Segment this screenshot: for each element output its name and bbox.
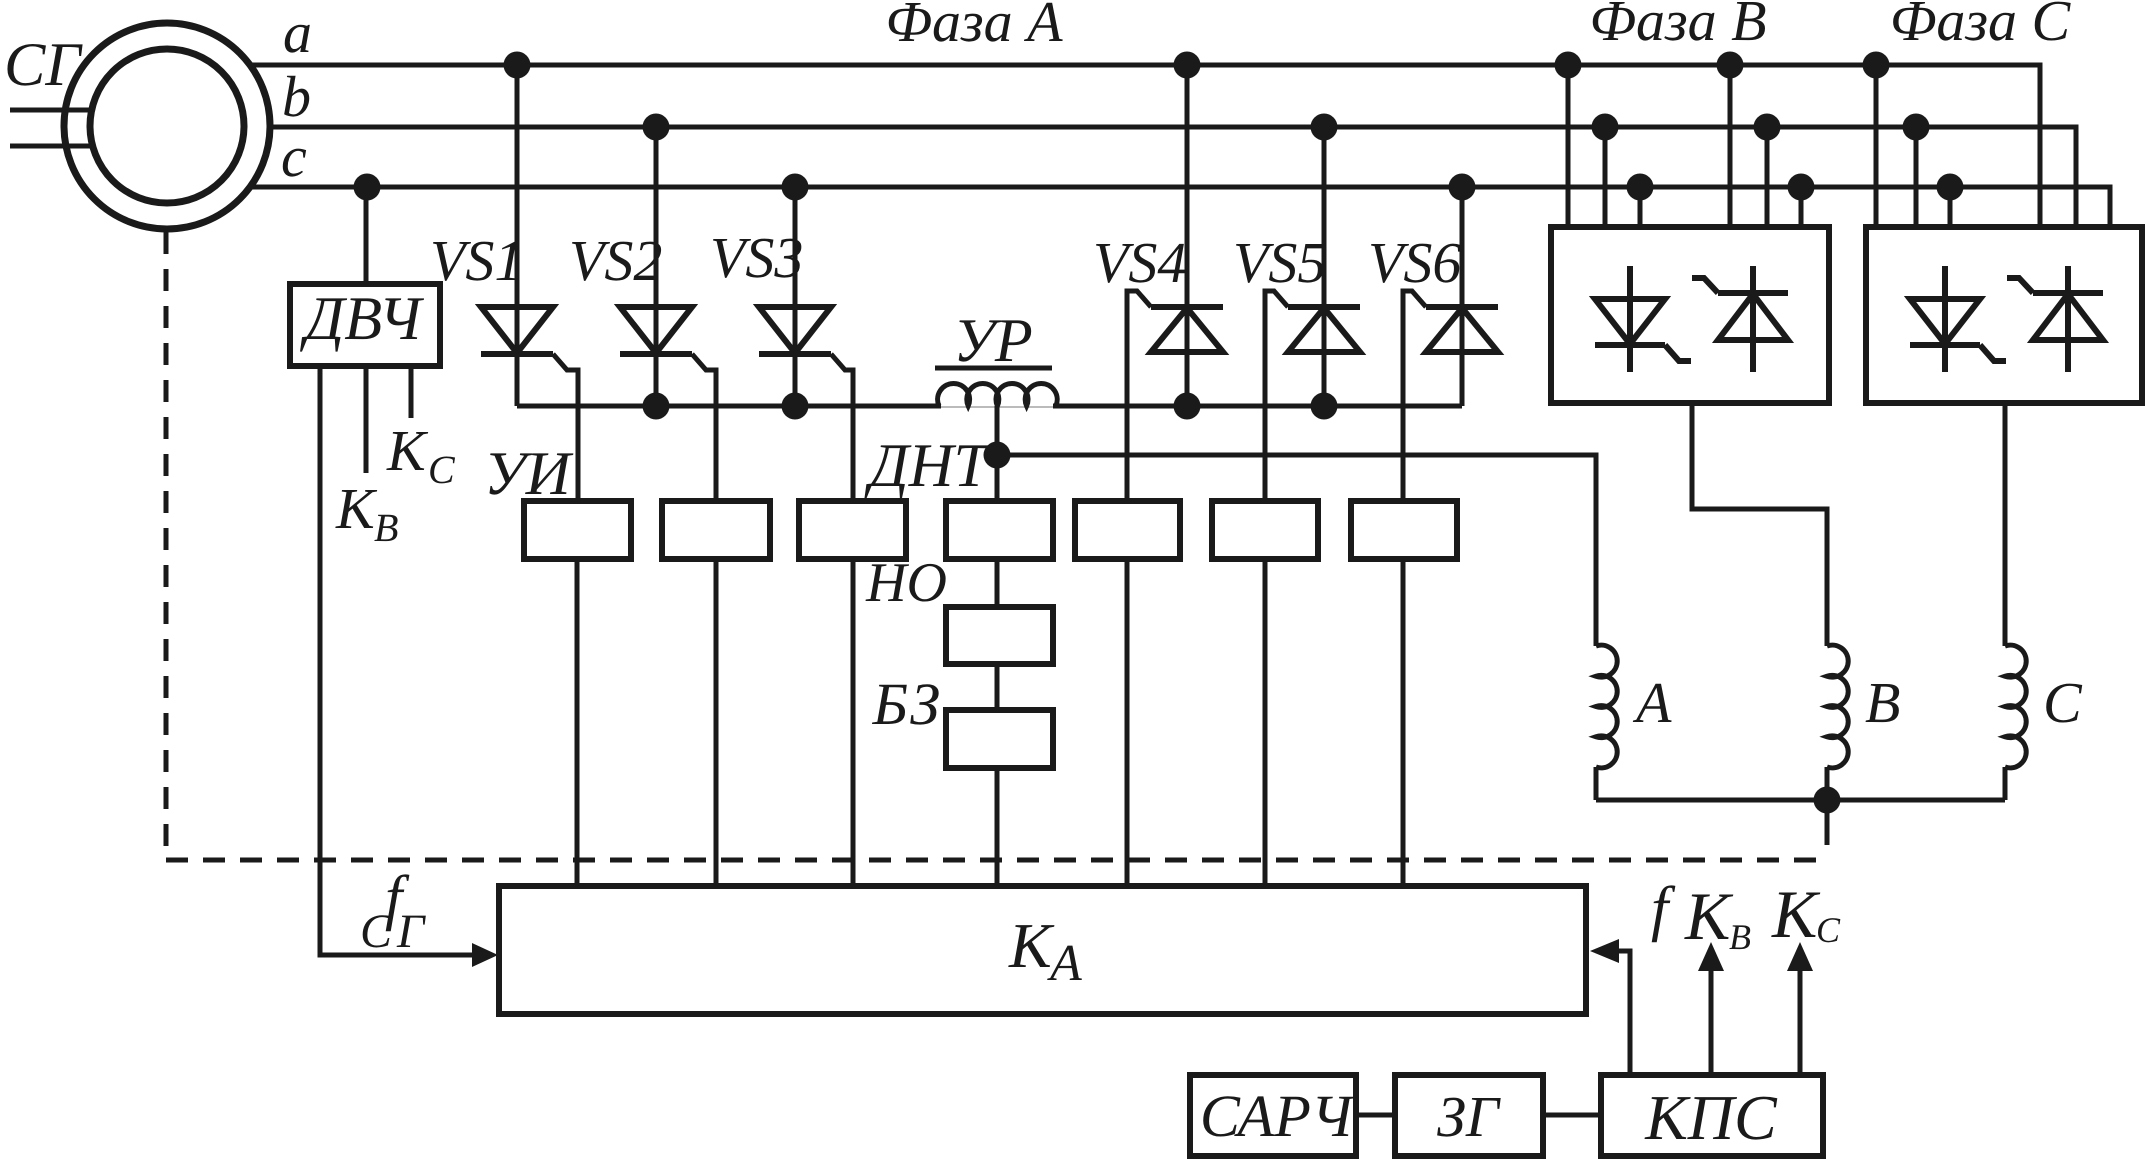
- wire УИ2 to КА: [714, 559, 719, 886]
- wire УИ4 to КА: [1125, 559, 1130, 886]
- thyristor VS5 cathode wire: [1322, 127, 1327, 406]
- node a-VS1: [504, 52, 531, 79]
- svg-text:К: К: [1684, 878, 1734, 954]
- svg-text:ЗГ: ЗГ: [1437, 1084, 1501, 1149]
- node c-VS3: [782, 174, 809, 201]
- thyristor M2 forward: [1942, 266, 1948, 372]
- svg-text:УИ: УИ: [484, 440, 574, 508]
- wire УИ5 to КА: [1263, 559, 1268, 886]
- dashed rotor line horizontal: [166, 858, 1826, 863]
- thyristor VS1 gate wire: [553, 354, 578, 501]
- label УР underline: [935, 366, 1052, 371]
- svg-text:VS4: VS4: [1093, 230, 1186, 295]
- block УИ1: [524, 501, 631, 559]
- wire M1 pin b right: [1765, 127, 1770, 227]
- thyristor VS2 gate wire: [692, 354, 716, 501]
- wire dc bus under reactor: [941, 406, 1053, 408]
- wire ДНТ to НО: [995, 559, 1000, 607]
- wire УИ3 to КА: [851, 559, 856, 886]
- svg-text:БЗ: БЗ: [872, 671, 940, 737]
- wire inductor B bottom: [1825, 767, 1830, 800]
- svg-text:VS1: VS1: [430, 228, 523, 293]
- svg-text:СГ: СГ: [360, 905, 429, 958]
- svg-text:VS3: VS3: [710, 225, 803, 290]
- thyristor VS6: [1426, 308, 1498, 352]
- svg-text:К: К: [386, 418, 429, 483]
- thyristor VS6 gate wire: [1403, 291, 1426, 501]
- node b-VS2: [643, 114, 670, 141]
- thyristor VS3 anode wire: [793, 187, 798, 406]
- wire phase c: [250, 187, 2110, 227]
- wire M2 pin a left: [1874, 65, 1879, 227]
- wire M1 pin b left: [1603, 127, 1608, 227]
- wire M1 pin a left: [1566, 65, 1571, 227]
- svg-text:VS6: VS6: [1368, 230, 1461, 295]
- wire ДВЧ input from phase c: [364, 187, 369, 284]
- svg-text:c: c: [281, 124, 307, 189]
- thyristor VS4: [1151, 308, 1223, 352]
- node neutral: [1814, 787, 1841, 814]
- svg-text:ДНТ: ДНТ: [864, 432, 992, 500]
- node b-VS5: [1311, 114, 1338, 141]
- node c-M1R: [1788, 174, 1815, 201]
- block ЗГ: [1395, 1075, 1543, 1156]
- wire M1 pin a right: [1728, 65, 1733, 227]
- wire УИ6 to КА: [1401, 559, 1406, 886]
- thyristor VS4 cathode wire: [1185, 65, 1190, 406]
- block КПС: [1601, 1075, 1823, 1156]
- svg-text:ДВЧ: ДВЧ: [300, 285, 425, 353]
- node b-M1L: [1592, 114, 1619, 141]
- module M2 box (Фаза С): [1866, 227, 2142, 403]
- svg-text:С: С: [1816, 910, 1841, 950]
- wire ДВЧ output fСГ to КА: [320, 366, 473, 955]
- svg-text:В: В: [1729, 917, 1751, 957]
- wire САРЧ to ЗГ: [1356, 1113, 1395, 1118]
- thyristor VS3: [759, 307, 831, 353]
- generator stator lead 1: [10, 108, 90, 113]
- thyristor VS6 cathode wire: [1460, 187, 1465, 406]
- wire УИ1 to КА: [575, 559, 580, 886]
- block УИ5: [1212, 501, 1318, 559]
- wire ДНТ to inductor A: [997, 455, 1596, 646]
- node ДНТ: [984, 442, 1011, 469]
- block УИ4: [1075, 501, 1180, 559]
- svg-text:VS5: VS5: [1233, 230, 1326, 295]
- thyristor VS2: [620, 307, 692, 353]
- svg-text:A: A: [1632, 670, 1672, 735]
- thyristor VS5 gate wire: [1265, 291, 1288, 501]
- node c-M1L: [1627, 174, 1654, 201]
- module M1 box (Фаза В): [1551, 227, 1829, 403]
- wire phase a: [250, 65, 2040, 227]
- wire ДВЧ output КС: [409, 366, 414, 418]
- wire f from КПС to КА: [1617, 951, 1630, 1074]
- node b-M2L: [1903, 114, 1930, 141]
- node c-M2L: [1937, 174, 1964, 201]
- node a-VS4: [1174, 52, 1201, 79]
- thyristor VS5: [1288, 308, 1360, 352]
- node c-VS6: [1449, 174, 1476, 201]
- wire НО to БЗ: [995, 664, 1000, 710]
- reactor УР: [938, 383, 1058, 406]
- generator СГ inner circle: [90, 49, 244, 203]
- block ДВЧ: [290, 284, 440, 366]
- node a-M1L: [1555, 52, 1582, 79]
- svg-text:C: C: [2043, 670, 2083, 735]
- inductor B: [1827, 645, 1848, 768]
- node c-ДВЧ: [354, 174, 381, 201]
- block САРЧ: [1190, 1075, 1356, 1156]
- block УИ6: [1351, 501, 1457, 559]
- svg-text:К: К: [335, 476, 378, 541]
- wire КВ from КПС: [1709, 968, 1714, 1074]
- svg-text:b: b: [282, 64, 311, 129]
- block НО: [946, 607, 1053, 664]
- wire БЗ to КА: [995, 768, 1000, 886]
- svg-text:Фаза А: Фаза А: [885, 0, 1063, 54]
- thyristor VS2 anode wire: [654, 127, 659, 406]
- thyristor VS1 anode wire: [515, 65, 520, 406]
- svg-text:a: a: [283, 0, 312, 65]
- dashed rotor line vertical: [164, 232, 169, 860]
- wire inductor C bottom: [2003, 767, 2008, 800]
- thyristor VS3 gate wire: [831, 354, 853, 501]
- wire dc bus right: [1053, 404, 1462, 409]
- wire M2 pin b left: [1914, 127, 1919, 227]
- svg-text:Фаза С: Фаза С: [1890, 0, 2072, 53]
- wire neutral stub: [1825, 800, 1830, 845]
- wire M1 pin c left: [1638, 187, 1643, 227]
- wire ЗГ to КПС: [1543, 1113, 1601, 1118]
- node bus-VS4: [1174, 393, 1201, 420]
- thyristor M1 reverse: [1750, 266, 1756, 372]
- thyristor M2 reverse: [2065, 266, 2071, 372]
- wire phase b: [270, 127, 2076, 227]
- svg-text:VS2: VS2: [569, 228, 662, 293]
- thyristor M1 forward: [1627, 266, 1633, 372]
- svg-text:С: С: [428, 447, 456, 492]
- node b-M1R: [1754, 114, 1781, 141]
- svg-text:КПС: КПС: [1644, 1082, 1778, 1153]
- svg-text:К: К: [1771, 876, 1821, 952]
- wire M2 output to inductor C: [2003, 403, 2008, 646]
- wire КС from КПС: [1798, 968, 1803, 1074]
- node bus-VS2: [643, 393, 670, 420]
- svg-text:Фаза В: Фаза В: [1589, 0, 1766, 53]
- wire ДВЧ output КВ: [364, 366, 369, 473]
- block УИ3: [799, 501, 906, 559]
- svg-text:К: К: [1008, 910, 1055, 981]
- wire dc bus left: [517, 404, 941, 409]
- block БЗ: [946, 710, 1053, 768]
- wire M1 output to inductor B: [1692, 403, 1827, 646]
- arrowhead КС: [1787, 942, 1813, 971]
- svg-text:УР: УР: [953, 307, 1033, 375]
- thyristor VS4 gate wire: [1127, 291, 1151, 501]
- node a-M1R: [1717, 52, 1744, 79]
- generator СГ outer circle: [64, 23, 270, 229]
- wire M1 pin c right: [1799, 187, 1804, 227]
- node bus-VS5: [1311, 393, 1338, 420]
- block ДНТ: [946, 501, 1053, 559]
- svg-text:СГ: СГ: [4, 31, 83, 99]
- generator stator lead 2: [10, 144, 90, 149]
- thyristor VS1: [481, 307, 553, 353]
- inductor A: [1596, 645, 1617, 768]
- svg-text:НО: НО: [865, 552, 947, 614]
- wire neutral ABC: [1596, 798, 2005, 803]
- wire ДНТ tap: [995, 406, 1000, 501]
- block УИ2: [662, 501, 770, 559]
- arrowhead КВ: [1698, 942, 1724, 971]
- arrowhead fСГ: [472, 943, 498, 967]
- arrowhead f: [1590, 939, 1619, 963]
- wire inductor A bottom: [1594, 767, 1599, 800]
- wire M2 pin c left: [1948, 187, 1953, 227]
- block КА: [499, 886, 1586, 1014]
- inductor C: [2005, 645, 2026, 768]
- svg-text:В: В: [374, 505, 398, 550]
- svg-text:B: B: [1865, 670, 1900, 735]
- svg-text:А: А: [1047, 935, 1082, 992]
- svg-text:САРЧ: САРЧ: [1200, 1083, 1356, 1149]
- node bus-VS3: [782, 393, 809, 420]
- node a-M2L: [1863, 52, 1890, 79]
